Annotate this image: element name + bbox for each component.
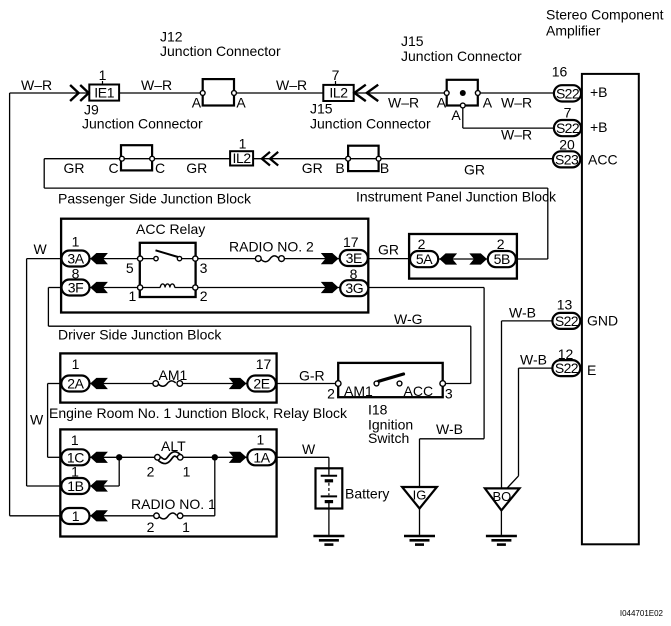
svg-text:1: 1 — [183, 464, 191, 480]
svg-text:1: 1 — [257, 432, 265, 448]
svg-text:GR: GR — [464, 162, 485, 178]
svg-text:Instrument Panel Junction Bloc: Instrument Panel Junction Block — [356, 188, 557, 204]
svg-text:W-B: W-B — [509, 305, 536, 321]
svg-text:W–R: W–R — [501, 127, 532, 143]
svg-text:S22: S22 — [555, 360, 579, 376]
svg-text:J15: J15 — [310, 101, 333, 117]
svg-text:Junction Connector: Junction Connector — [160, 43, 281, 59]
svg-text:1: 1 — [239, 136, 247, 152]
svg-text:Stereo Component: Stereo Component — [546, 7, 664, 23]
svg-text:1A: 1A — [253, 449, 270, 465]
svg-text:ALT: ALT — [161, 438, 186, 454]
svg-text:13: 13 — [557, 297, 573, 313]
svg-text:5B: 5B — [494, 251, 510, 267]
svg-text:2: 2 — [200, 288, 208, 304]
svg-text:16: 16 — [552, 64, 568, 80]
svg-text:A: A — [483, 95, 493, 111]
svg-text:IG: IG — [413, 488, 427, 503]
svg-text:Junction Connector: Junction Connector — [401, 48, 522, 64]
svg-text:W: W — [302, 441, 316, 457]
svg-text:W: W — [30, 412, 44, 428]
svg-text:GR: GR — [64, 160, 85, 176]
svg-text:+B: +B — [590, 119, 608, 135]
svg-text:S22: S22 — [556, 85, 580, 101]
svg-text:W–R: W–R — [21, 77, 52, 93]
svg-text:BO: BO — [493, 489, 512, 504]
svg-text:2A: 2A — [67, 376, 84, 392]
svg-text:AM1: AM1 — [159, 367, 188, 383]
svg-text:AM1: AM1 — [344, 383, 373, 399]
svg-text:Passenger Side Junction Block: Passenger Side Junction Block — [58, 191, 252, 207]
svg-text:Switch: Switch — [368, 430, 409, 446]
svg-text:RADIO NO. 1: RADIO NO. 1 — [131, 496, 216, 512]
svg-text:2E: 2E — [253, 376, 269, 392]
svg-text:1: 1 — [72, 234, 80, 250]
svg-text:W–R: W–R — [388, 95, 419, 111]
svg-text:W–R: W–R — [501, 95, 532, 111]
svg-text:1B: 1B — [67, 478, 83, 494]
svg-text:2: 2 — [147, 464, 155, 480]
svg-text:5A: 5A — [416, 251, 433, 267]
svg-text:J15: J15 — [401, 33, 424, 49]
svg-text:IL2: IL2 — [329, 85, 348, 101]
svg-text:Amplifier: Amplifier — [546, 23, 601, 39]
svg-text:E: E — [587, 362, 596, 378]
svg-text:RADIO NO. 2: RADIO NO. 2 — [229, 239, 314, 255]
svg-text:C: C — [108, 160, 118, 176]
svg-text:7: 7 — [332, 67, 340, 83]
svg-text:ACC: ACC — [588, 152, 618, 168]
svg-text:Junction Connector: Junction Connector — [310, 116, 431, 132]
svg-text:3A: 3A — [67, 251, 84, 267]
svg-text:B: B — [380, 160, 389, 176]
svg-text:B: B — [335, 160, 344, 176]
svg-text:ACC: ACC — [404, 383, 434, 399]
svg-text:IL2: IL2 — [232, 150, 251, 166]
svg-text:2: 2 — [497, 236, 505, 252]
svg-text:A: A — [437, 95, 447, 111]
svg-text:A: A — [451, 107, 461, 123]
svg-text:S23: S23 — [555, 151, 579, 167]
svg-text:IE1: IE1 — [94, 85, 114, 101]
svg-text:1: 1 — [182, 519, 190, 535]
svg-text:2: 2 — [327, 386, 335, 402]
svg-text:Driver Side Junction Block: Driver Side Junction Block — [58, 327, 222, 343]
svg-text:+B: +B — [590, 84, 608, 100]
svg-text:GR: GR — [302, 160, 323, 176]
svg-text:1: 1 — [129, 288, 137, 304]
svg-text:3: 3 — [445, 386, 453, 402]
svg-text:3F: 3F — [68, 280, 84, 296]
svg-text:GR: GR — [186, 160, 207, 176]
svg-text:Junction Connector: Junction Connector — [82, 116, 203, 132]
svg-text:C: C — [155, 160, 165, 176]
svg-text:G-R: G-R — [299, 368, 325, 384]
svg-text:W-B: W-B — [520, 352, 547, 368]
svg-text:20: 20 — [559, 137, 575, 153]
svg-text:A: A — [192, 95, 202, 111]
svg-text:2: 2 — [418, 236, 426, 252]
svg-text:A: A — [236, 95, 246, 111]
svg-text:2: 2 — [147, 519, 155, 535]
svg-text:1: 1 — [72, 508, 80, 524]
svg-text:W: W — [34, 241, 48, 257]
svg-text:Battery: Battery — [345, 486, 389, 502]
svg-text:5: 5 — [126, 260, 134, 276]
svg-text:I18: I18 — [368, 402, 388, 418]
svg-text:1: 1 — [72, 356, 80, 372]
svg-text:S22: S22 — [555, 313, 579, 329]
svg-text:ACC Relay: ACC Relay — [136, 221, 205, 237]
svg-text:Engine Room No. 1 Junction Blo: Engine Room No. 1 Junction Block, Relay … — [49, 405, 348, 421]
svg-text:S22: S22 — [556, 120, 580, 136]
svg-text:W–R: W–R — [276, 77, 307, 93]
svg-text:17: 17 — [343, 234, 359, 250]
svg-text:7: 7 — [564, 105, 572, 121]
svg-text:1: 1 — [99, 67, 107, 83]
svg-text:W-B: W-B — [436, 421, 463, 437]
svg-text:1C: 1C — [67, 449, 84, 465]
svg-text:3E: 3E — [346, 250, 362, 266]
svg-text:1: 1 — [71, 432, 79, 448]
svg-text:GR: GR — [378, 242, 399, 258]
svg-text:17: 17 — [256, 356, 272, 372]
svg-text:GND: GND — [587, 313, 618, 329]
svg-text:I044701E02: I044701E02 — [620, 609, 664, 618]
svg-text:3: 3 — [200, 260, 208, 276]
svg-text:W-G: W-G — [394, 311, 423, 327]
svg-text:3G: 3G — [345, 280, 363, 296]
svg-text:W–R: W–R — [141, 77, 172, 93]
